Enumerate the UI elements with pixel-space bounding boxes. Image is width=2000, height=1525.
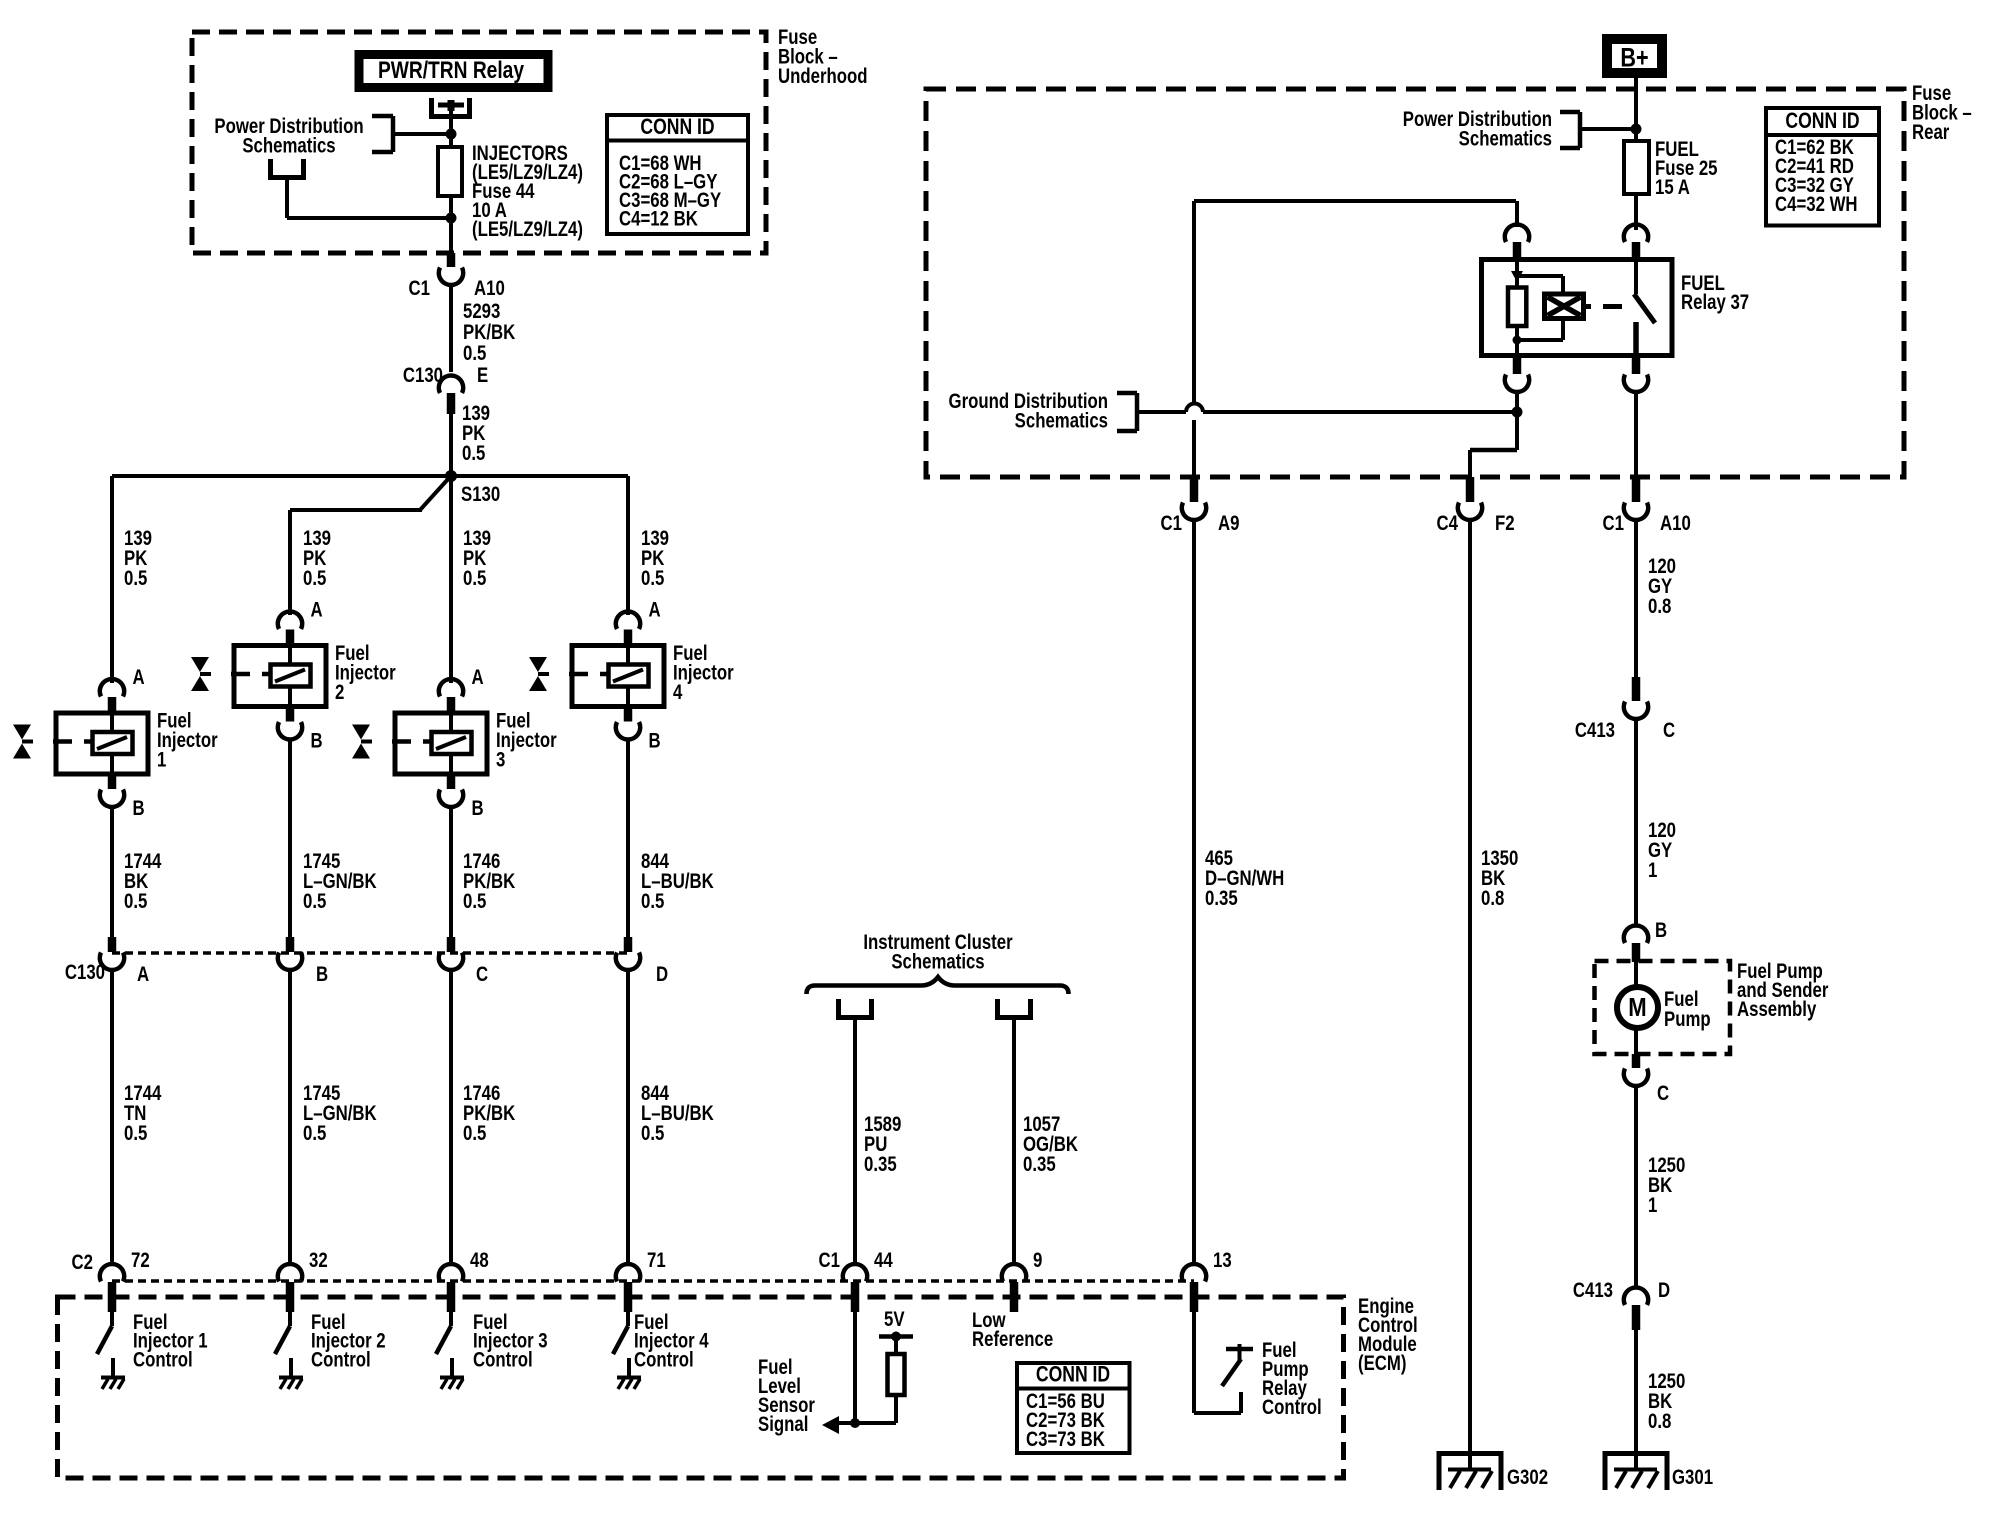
svg-text:Schematics: Schematics [242, 135, 335, 158]
svg-text:9: 9 [1033, 1249, 1042, 1272]
svg-text:Control: Control [133, 1349, 193, 1372]
svg-text:0.5: 0.5 [124, 567, 148, 590]
svg-text:48: 48 [470, 1249, 489, 1272]
svg-text:C: C [1663, 719, 1675, 742]
svg-text:13: 13 [1213, 1249, 1232, 1272]
svg-text:(ECM): (ECM) [1358, 1352, 1406, 1375]
svg-text:0.5: 0.5 [124, 1122, 148, 1145]
svg-text:0.5: 0.5 [641, 567, 665, 590]
svg-text:0.5: 0.5 [463, 567, 487, 590]
svg-text:1: 1 [1648, 859, 1658, 882]
svg-text:C4: C4 [1437, 512, 1459, 535]
svg-text:15 A: 15 A [1655, 176, 1690, 199]
svg-text:3: 3 [496, 749, 505, 772]
svg-text:0.8: 0.8 [1648, 1410, 1671, 1433]
svg-text:0.5: 0.5 [303, 1122, 327, 1145]
svg-text:C1: C1 [819, 1249, 841, 1272]
svg-text:72: 72 [131, 1249, 150, 1272]
svg-text:C413: C413 [1573, 1279, 1613, 1302]
svg-text:B: B [1655, 919, 1667, 942]
svg-text:Reference: Reference [972, 1328, 1053, 1351]
svg-text:C4=32 WH: C4=32 WH [1775, 193, 1858, 216]
svg-text:44: 44 [874, 1249, 893, 1272]
svg-text:0.5: 0.5 [462, 442, 486, 465]
svg-text:Schematics: Schematics [891, 951, 984, 974]
svg-text:0.5: 0.5 [124, 890, 148, 913]
svg-text:Schematics: Schematics [1459, 128, 1552, 151]
svg-text:A9: A9 [1218, 512, 1239, 535]
svg-text:A: A [133, 666, 145, 689]
svg-text:1: 1 [157, 749, 167, 772]
svg-text:C1: C1 [409, 277, 431, 300]
svg-text:5293: 5293 [463, 300, 500, 323]
svg-text:A: A [137, 963, 149, 986]
svg-text:C413: C413 [1575, 719, 1615, 742]
svg-text:32: 32 [309, 1249, 328, 1272]
svg-text:F2: F2 [1495, 512, 1515, 535]
svg-text:A: A [472, 666, 484, 689]
svg-text:C4=12 BK: C4=12 BK [619, 208, 698, 231]
svg-text:0.5: 0.5 [463, 1122, 487, 1145]
svg-text:M: M [1628, 993, 1646, 1022]
svg-text:0.8: 0.8 [1481, 887, 1504, 910]
svg-text:71: 71 [647, 1249, 666, 1272]
svg-text:0.8: 0.8 [1648, 595, 1671, 618]
svg-text:A: A [311, 599, 323, 622]
svg-text:Schematics: Schematics [1015, 410, 1108, 433]
svg-text:5V: 5V [884, 1308, 905, 1331]
svg-text:Control: Control [473, 1349, 533, 1372]
svg-text:0.5: 0.5 [641, 1122, 665, 1145]
svg-text:C1: C1 [1603, 512, 1625, 535]
svg-text:B: B [133, 797, 145, 820]
svg-text:A10: A10 [474, 277, 505, 300]
svg-text:CONN ID: CONN ID [1036, 1363, 1110, 1387]
svg-text:S130: S130 [461, 483, 500, 506]
svg-text:0.5: 0.5 [641, 890, 665, 913]
svg-text:B+: B+ [1620, 43, 1648, 73]
svg-text:0.35: 0.35 [864, 1153, 897, 1176]
svg-text:4: 4 [673, 681, 683, 704]
svg-text:C1: C1 [1161, 512, 1183, 535]
svg-text:Underhood: Underhood [778, 65, 868, 88]
svg-text:G302: G302 [1507, 1466, 1548, 1489]
svg-text:PWR/TRN Relay: PWR/TRN Relay [378, 56, 524, 84]
svg-text:CONN ID: CONN ID [1785, 109, 1859, 133]
svg-text:0.5: 0.5 [303, 567, 327, 590]
svg-text:A10: A10 [1660, 512, 1691, 535]
svg-text:B: B [649, 730, 661, 753]
svg-text:Relay 37: Relay 37 [1681, 291, 1749, 314]
svg-text:PK/BK: PK/BK [463, 321, 515, 344]
svg-text:0.5: 0.5 [463, 342, 487, 365]
svg-text:E: E [477, 364, 488, 387]
svg-text:0.5: 0.5 [463, 890, 487, 913]
svg-text:C: C [476, 963, 488, 986]
svg-text:Pump: Pump [1664, 1008, 1711, 1031]
svg-text:Signal: Signal [758, 1413, 808, 1436]
svg-text:Control: Control [311, 1349, 371, 1372]
svg-text:Control: Control [634, 1349, 694, 1372]
svg-text:B: B [311, 730, 323, 753]
svg-text:2: 2 [335, 681, 344, 704]
svg-text:0.5: 0.5 [303, 890, 327, 913]
svg-text:C2: C2 [72, 1251, 93, 1274]
svg-text:CONN ID: CONN ID [640, 115, 714, 139]
svg-text:C: C [1657, 1082, 1669, 1105]
svg-text:(LE5/LZ9/LZ4): (LE5/LZ9/LZ4) [472, 218, 583, 241]
svg-text:D: D [1658, 1279, 1670, 1302]
svg-text:Rear: Rear [1912, 121, 1950, 144]
svg-text:1: 1 [1648, 1194, 1658, 1217]
svg-text:C3=73 BK: C3=73 BK [1026, 1428, 1105, 1451]
svg-text:Assembly: Assembly [1737, 998, 1817, 1021]
svg-text:Control: Control [1262, 1396, 1322, 1419]
svg-text:B: B [472, 797, 484, 820]
svg-text:A: A [649, 599, 661, 622]
svg-text:0.35: 0.35 [1205, 887, 1238, 910]
svg-text:B: B [316, 963, 328, 986]
svg-text:C130: C130 [65, 961, 105, 984]
svg-text:0.35: 0.35 [1023, 1153, 1056, 1176]
svg-text:D: D [656, 963, 668, 986]
svg-text:G301: G301 [1672, 1466, 1713, 1489]
